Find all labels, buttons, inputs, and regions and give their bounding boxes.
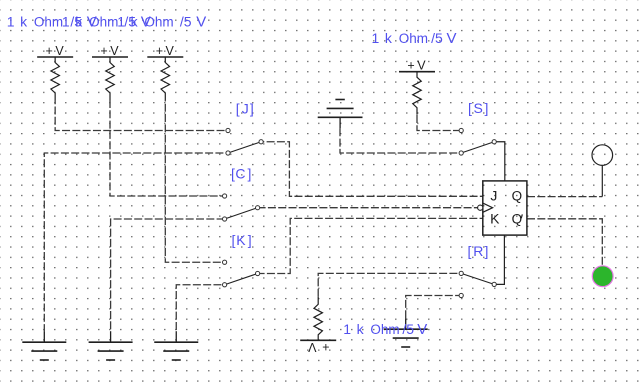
- svg-text:V: V: [447, 30, 457, 47]
- svg-text:Ohm: Ohm: [89, 14, 118, 29]
- svg-text:V: V: [55, 44, 64, 58]
- svg-text:[J]: [J]: [236, 101, 254, 117]
- svg-text:k: k: [131, 13, 139, 29]
- svg-text:V: V: [308, 340, 317, 354]
- svg-text:1: 1: [343, 321, 351, 337]
- svg-text:K: K: [490, 211, 500, 227]
- svg-text:k: k: [385, 30, 393, 46]
- svg-text:J: J: [490, 187, 497, 203]
- svg-text:V: V: [166, 44, 175, 58]
- svg-text:k: k: [357, 321, 365, 337]
- svg-text:1: 1: [7, 13, 15, 29]
- svg-text:V: V: [417, 321, 427, 338]
- svg-text:1: 1: [62, 13, 70, 29]
- svg-text:[S]: [S]: [468, 100, 488, 116]
- svg-text:+: +: [46, 44, 53, 58]
- svg-text:k: k: [20, 13, 28, 29]
- svg-text:k: k: [75, 13, 83, 29]
- svg-text:1: 1: [117, 13, 125, 29]
- svg-text:Ohm: Ohm: [399, 31, 428, 46]
- svg-text:+: +: [100, 44, 107, 58]
- svg-text:Q: Q: [512, 212, 523, 227]
- svg-text:1: 1: [372, 30, 380, 46]
- svg-text:Q: Q: [512, 188, 523, 203]
- svg-text:/5: /5: [431, 30, 443, 46]
- svg-text:[K]: [K]: [232, 232, 252, 248]
- svg-text:V: V: [110, 44, 119, 58]
- svg-text:[R]: [R]: [468, 243, 489, 259]
- svg-text:+: +: [407, 59, 414, 73]
- svg-text:V: V: [417, 59, 426, 73]
- svg-text:[C]: [C]: [231, 165, 251, 181]
- svg-text:Ohm: Ohm: [144, 14, 173, 29]
- svg-text:V: V: [196, 13, 206, 30]
- svg-text:/5: /5: [402, 321, 414, 337]
- svg-text:/5: /5: [180, 13, 192, 29]
- svg-text:Ohm: Ohm: [370, 322, 399, 337]
- svg-text:+: +: [322, 340, 329, 354]
- svg-text:Ohm: Ohm: [34, 14, 63, 29]
- svg-text:+: +: [156, 44, 163, 58]
